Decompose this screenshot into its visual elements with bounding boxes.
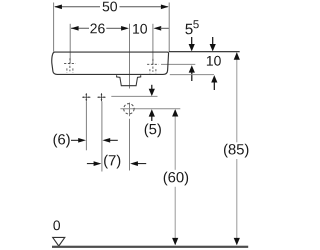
dimension line 26	[71, 27, 122, 29]
outside-right arrow of 10 with tail	[153, 26, 168, 31]
label 26	[90, 24, 104, 34]
down arrow of right 10 dim	[210, 37, 216, 51]
fixing level line (upper line of (5) dim)	[111, 95, 157, 97]
dimension line 50	[55, 6, 168, 8]
up arrow of (5) dim	[149, 109, 155, 121]
extension line below fixing cross 2	[101, 101, 103, 171]
arrowhead left of 26	[71, 26, 79, 31]
floor line	[52, 246, 248, 248]
arrowhead right of 50	[161, 4, 169, 9]
washbasin outline	[52, 52, 169, 74]
left-pointing arrow of (6)	[102, 138, 117, 143]
left-pointing arrow of (7)	[130, 161, 146, 166]
label 10 (basin height)	[207, 56, 221, 66]
right-pointing arrow of (6)	[71, 138, 86, 143]
drain outlet dashed circle	[124, 104, 134, 114]
up arrow of 5.5 dim	[189, 65, 195, 81]
drain trap under basin	[117, 75, 141, 85]
down arrow of (60)	[172, 238, 178, 245]
right-pointing arrow of (7)	[87, 161, 102, 166]
right tap hole (dashed cross)	[147, 59, 159, 73]
tap hole level line extended right	[161, 63, 195, 65]
label (6)	[54, 134, 70, 148]
label (7)	[104, 155, 120, 169]
extension line left of 50 dim	[53, 3, 55, 52]
extension line right tap hole	[152, 24, 154, 64]
down arrow of (5) dim	[149, 85, 155, 96]
label 50	[103, 2, 117, 12]
label 0 (floor datum)	[53, 220, 60, 230]
label (85)	[224, 144, 248, 158]
label (5)	[145, 124, 161, 138]
drain level line (lower line of (5) dim)	[120, 108, 180, 110]
(85) dimension vertical line	[236, 53, 238, 245]
up arrow of (85)	[234, 52, 240, 59]
(60) dimension vertical line	[174, 110, 176, 245]
label (60)	[164, 172, 188, 186]
fixing point cross 2	[97, 93, 105, 101]
datum triangle	[53, 237, 65, 246]
basin top edge extended right	[169, 51, 240, 53]
extension line left tap hole	[69, 24, 71, 63]
fixing point cross 1	[82, 93, 90, 101]
label 10 (drain to tap)	[133, 24, 147, 34]
extension line right of 50 dim	[168, 3, 170, 52]
up arrow of (60)	[172, 109, 178, 116]
extension line below fixing cross 1	[85, 101, 87, 150]
basin bottom edge extended right	[170, 74, 214, 76]
arrowhead left of 50	[54, 4, 62, 9]
left tap hole (dashed cross)	[64, 58, 76, 72]
down arrow of (85)	[234, 238, 240, 245]
down arrow of 5.5 dim	[189, 37, 195, 51]
label 5^5 (5.5 cm)	[185, 20, 198, 34]
arrowhead right of 26 pointing at drain line	[121, 26, 129, 31]
extension line drain center	[129, 24, 131, 171]
up arrow of right 10 dim	[211, 75, 217, 90]
